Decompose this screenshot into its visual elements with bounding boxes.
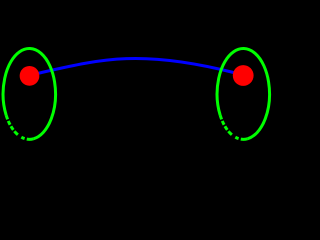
node B ellipse (right, green outline) bbox=[217, 49, 269, 140]
edge A-B (blue curved wire, drawn beneath node outlines) bbox=[39, 58, 234, 73]
node A marker (red dot, left) bbox=[20, 66, 40, 86]
node A ellipse (left, green outline) bbox=[3, 49, 55, 140]
node B marker (red dot, right) bbox=[233, 65, 254, 86]
